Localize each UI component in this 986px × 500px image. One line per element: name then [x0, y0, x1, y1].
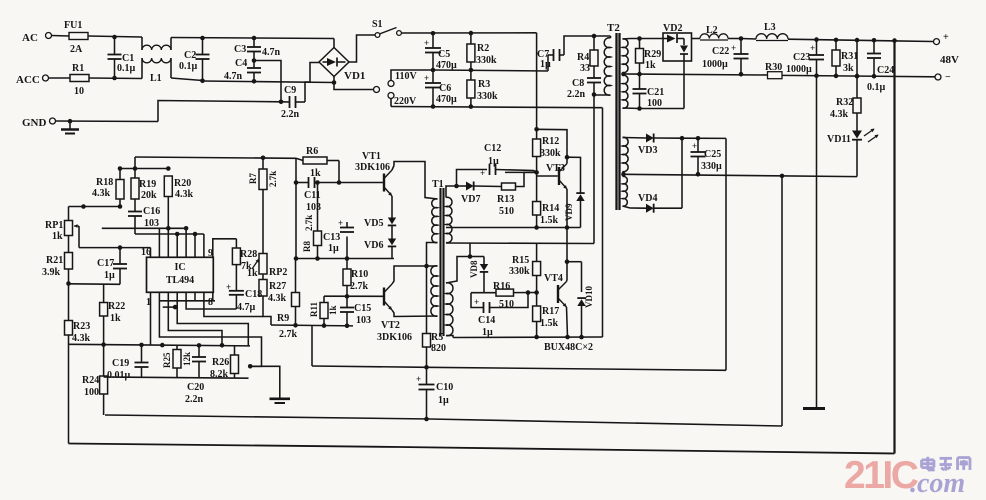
pin wire 9 to R28 — [213, 239, 237, 257]
svg-text:C17: C17 — [97, 258, 114, 269]
transformer T2 primary winding — [594, 36, 611, 95]
resistor R17 1.5k — [533, 293, 560, 340]
transistor VT4 — [544, 273, 567, 307]
svg-text:R19: R19 — [139, 179, 156, 190]
svg-text:R21: R21 — [46, 255, 63, 266]
wire outer bottom feedback line — [69, 444, 895, 454]
wire VT1 base line — [339, 182, 383, 184]
capacitor C19 0.01u — [107, 345, 149, 381]
wire T1 primary upper bottom to node — [424, 243, 437, 269]
wire bridge bottom to selector — [334, 77, 374, 90]
transistor VT2 — [377, 284, 412, 343]
resistor R29 1k — [636, 39, 662, 75]
svg-text:R28: R28 — [240, 249, 257, 260]
svg-text:0.1µ: 0.1µ — [867, 82, 886, 93]
resistor R25 12k — [162, 345, 192, 377]
svg-text:510: 510 — [499, 206, 514, 217]
wire bus 284 — [69, 283, 121, 286]
capacitor C20 2.2n — [185, 345, 206, 405]
svg-text:R30: R30 — [765, 62, 782, 73]
wire drive return line 258 — [296, 256, 394, 261]
svg-text:1k: 1k — [247, 268, 258, 279]
svg-text:C14: C14 — [478, 315, 495, 326]
wire aux rail 157 — [135, 156, 296, 161]
svg-text:103: 103 — [144, 218, 159, 229]
svg-text:VD2: VD2 — [663, 23, 682, 34]
svg-text:21IC: 21IC — [844, 454, 919, 497]
svg-text:2.7k: 2.7k — [279, 329, 298, 340]
node C5 C6 midpoint — [431, 68, 436, 73]
transformer T1 primary lower — [431, 266, 438, 316]
svg-text:R31: R31 — [841, 51, 858, 62]
svg-text:1k: 1k — [52, 231, 63, 242]
svg-text:R7: R7 — [248, 173, 258, 184]
terminal AC line input — [22, 32, 69, 44]
diode VD7 — [457, 182, 502, 206]
svg-text:4.7µ: 4.7µ — [237, 302, 256, 313]
wire C2 to bridge left — [203, 63, 337, 85]
svg-text:+: + — [338, 218, 343, 228]
resistor R9 2.7k — [277, 259, 300, 341]
svg-text:C16: C16 — [143, 206, 160, 217]
resistor R12 330k — [533, 129, 561, 174]
svg-text:C13: C13 — [323, 232, 340, 243]
wire bus RT CT — [135, 233, 204, 235]
wire top rail corner down — [536, 33, 538, 130]
capacitor C11 103 — [296, 177, 339, 213]
wire negative bus corner — [602, 108, 604, 337]
capacitor C1 0.1u — [108, 37, 136, 78]
svg-text:C15: C15 — [354, 303, 371, 314]
node C1 top — [112, 35, 117, 40]
wire bus1 345 — [69, 343, 251, 348]
svg-text:R3: R3 — [478, 79, 490, 90]
potentiometer RP2 1k — [247, 254, 287, 280]
svg-text:4.7n: 4.7n — [262, 47, 281, 58]
resistor R32 4.3k — [830, 40, 861, 130]
pin wire 15 — [158, 228, 160, 257]
wire T1 secondary top terminal — [446, 186, 457, 198]
wire GND line to C9 — [158, 100, 290, 122]
svg-text:R14: R14 — [542, 203, 559, 214]
wire pin7 route — [204, 292, 263, 316]
wire R27 jog to R9 line — [263, 296, 271, 325]
resistor R13 510 — [497, 172, 537, 217]
pin 9 label — [208, 248, 213, 259]
wire VT3 collector feed — [537, 129, 581, 185]
diode VD5 — [364, 196, 396, 229]
svg-text:1000µ: 1000µ — [786, 64, 812, 75]
svg-text:C5: C5 — [438, 49, 450, 60]
svg-text:330k: 330k — [477, 91, 498, 102]
svg-text:+: + — [226, 282, 231, 292]
svg-text:VT3: VT3 — [546, 163, 565, 174]
wire C5-C6 midpoint rail to C7 — [433, 55, 548, 71]
wire bus feedback — [102, 227, 186, 229]
wire rail3 negative DC bus — [391, 107, 603, 108]
svg-text:VD4: VD4 — [638, 193, 657, 204]
wire half-bridge line1 — [446, 227, 581, 229]
capacitor C25 330u — [691, 138, 723, 176]
wire fuse to L1 — [88, 36, 142, 37]
node C22 top — [739, 36, 744, 41]
fuse FU1 2A — [64, 20, 88, 55]
svg-text:1000µ: 1000µ — [702, 59, 728, 70]
svg-text:R29: R29 — [644, 49, 661, 60]
svg-text:103: 103 — [306, 202, 321, 213]
svg-text:+: + — [731, 43, 736, 53]
svg-text:4.7n: 4.7n — [224, 71, 243, 82]
wire C3-C4 midpoint to ground line — [254, 61, 281, 102]
svg-text:R32: R32 — [836, 97, 853, 108]
svg-text:4.3k: 4.3k — [268, 293, 287, 304]
svg-text:+: + — [692, 141, 697, 151]
svg-text:3k: 3k — [843, 63, 854, 74]
svg-text:R20: R20 — [174, 178, 191, 189]
wire VT3 emitter down — [565, 189, 570, 230]
capacitor C4 4.7n — [224, 58, 261, 84]
svg-text:+: + — [480, 168, 485, 178]
svg-text:R5: R5 — [431, 332, 443, 343]
wire aux supply down feed — [725, 138, 727, 370]
svg-text:0.1µ: 0.1µ — [117, 63, 136, 74]
wire T1 secondary lower top to VD8 — [446, 243, 484, 283]
wire VT2 collector node to T1 lower — [427, 265, 438, 267]
svg-text:L2: L2 — [706, 25, 718, 36]
wire bus R18 RP1 — [69, 204, 123, 209]
svg-text:4.3k: 4.3k — [92, 188, 111, 199]
transistor VT1 — [355, 151, 394, 196]
resistor R3 330k — [467, 70, 498, 109]
transformer T1 primary upper — [432, 199, 438, 243]
watermark dianziwang characters — [922, 457, 970, 471]
capacitor C3 4.7n — [234, 38, 281, 61]
wire VT1 collector to T1 — [394, 162, 438, 200]
resistor R6 1k — [296, 146, 341, 185]
svg-text:0.01µ: 0.01µ — [107, 370, 131, 381]
resistor R26 8.2k — [210, 346, 239, 380]
rectifier module VD2 — [663, 23, 692, 61]
svg-text:C21: C21 — [647, 87, 664, 98]
svg-text:2.2n: 2.2n — [185, 394, 204, 405]
node VD3 VD4 cathode join — [680, 136, 685, 141]
svg-text:C12: C12 — [484, 143, 501, 154]
wire +48V top rail — [741, 37, 933, 43]
svg-text:R18: R18 — [96, 177, 113, 188]
svg-text:R23: R23 — [73, 321, 90, 332]
resistor R1 10 — [70, 63, 89, 97]
svg-text:L1: L1 — [150, 73, 162, 84]
wire T2 secondary top to VD2 — [623, 36, 664, 41]
wire VD2 bottom return — [683, 61, 685, 109]
svg-text:20k: 20k — [141, 190, 157, 201]
wire bus2 377 — [104, 377, 249, 378]
capacitor C18 4.7u — [226, 282, 262, 313]
svg-text:VD1: VD1 — [344, 70, 365, 82]
diode VD3 — [623, 134, 683, 157]
capacitor C12 1u — [457, 143, 537, 186]
transistor VT3 — [546, 157, 567, 189]
pin wire 16 — [150, 248, 152, 258]
svg-text:3DK106: 3DK106 — [355, 162, 390, 173]
wire aux rail corner down — [294, 158, 299, 261]
svg-text:R2: R2 — [477, 43, 489, 54]
svg-text:+: + — [424, 38, 429, 48]
capacitor C9 2.2n — [281, 85, 305, 120]
capacitor C8 2.2n — [567, 78, 601, 100]
resistor R7 2.7k — [248, 158, 278, 254]
svg-text:C9: C9 — [284, 85, 296, 96]
potentiometer RP1 1k — [45, 207, 79, 253]
wire bus wiper to pin16 — [79, 245, 151, 250]
watermark .com — [910, 468, 965, 499]
transformer T2 secondary winding upper — [623, 39, 629, 73]
svg-text:S1: S1 — [372, 19, 383, 30]
svg-text:R16: R16 — [493, 281, 510, 292]
wire L1 to C2 top rail — [171, 36, 254, 41]
resistor R2 330k — [467, 33, 497, 72]
svg-text:2.7k: 2.7k — [268, 171, 278, 187]
transformer T1 secondary lower — [446, 283, 453, 336]
svg-text:1µ: 1µ — [328, 243, 339, 254]
diode VD4 — [623, 138, 683, 213]
svg-text:C22: C22 — [712, 46, 729, 57]
svg-text:R13: R13 — [497, 194, 514, 205]
svg-text:R11: R11 — [309, 301, 319, 317]
ground symbol at GND input — [61, 119, 79, 134]
wire VT4 collector — [565, 228, 570, 281]
svg-text:470µ: 470µ — [436, 94, 457, 105]
svg-text:2.7k: 2.7k — [304, 215, 314, 231]
inductor L2 — [692, 25, 742, 40]
wire T2 secondary bottom rail — [623, 106, 685, 111]
svg-text:103: 103 — [356, 315, 371, 326]
svg-text:1.5k: 1.5k — [540, 215, 559, 226]
wire pin2 ground route — [159, 292, 261, 368]
capacitor C22 1000u — [702, 39, 749, 77]
wire R9 bottom line — [271, 323, 353, 328]
svg-text:+: + — [416, 374, 421, 384]
svg-text:R12: R12 — [542, 136, 559, 147]
resistor R11 1k — [309, 296, 338, 328]
wire pin4 route — [177, 292, 248, 346]
chassis ground bar — [803, 407, 825, 410]
wire pin3 route — [168, 292, 224, 347]
svg-text:.com: .com — [910, 468, 965, 499]
capacitor C24 0.1u — [867, 40, 894, 93]
resistor R15 330k — [509, 243, 541, 295]
svg-text:16: 16 — [141, 247, 151, 258]
svg-text:R8: R8 — [302, 241, 312, 252]
svg-text:+: + — [810, 43, 815, 53]
svg-text:C6: C6 — [439, 83, 451, 94]
wire pin8 stub — [212, 292, 214, 301]
capacitor C14 1u — [471, 293, 528, 338]
inductor L3 — [756, 22, 788, 41]
capacitor C15 103 — [340, 296, 371, 328]
svg-text:VT2: VT2 — [381, 320, 400, 331]
transformer T2 core — [607, 22, 620, 210]
wire aux feed line to drive circuit — [312, 326, 726, 371]
svg-text:R25: R25 — [162, 352, 172, 368]
svg-text:RP2: RP2 — [269, 267, 287, 278]
svg-text:2.7k: 2.7k — [350, 281, 369, 292]
svg-text:C8: C8 — [572, 78, 584, 89]
svg-text:48V: 48V — [940, 54, 959, 66]
wire C9 to AC rail — [305, 82, 310, 102]
pin wire 11 — [193, 232, 198, 258]
resistor R31 3k — [832, 40, 858, 76]
pin wire 13 — [175, 232, 180, 258]
resistor R10 2.7k — [343, 259, 369, 299]
wire VT2 emitter — [392, 310, 438, 317]
svg-text:R1: R1 — [72, 63, 84, 74]
resistor R20 4.3k — [164, 176, 193, 200]
capacitor C10 1u — [416, 367, 453, 421]
node T1 secondary top — [454, 184, 459, 189]
svg-text:R10: R10 — [351, 269, 368, 280]
svg-text:330µ: 330µ — [701, 161, 722, 172]
pin wire 10 — [203, 234, 205, 257]
svg-text:AC: AC — [22, 32, 38, 44]
terminal GND — [22, 117, 158, 129]
label BUX48C x2 — [544, 342, 593, 353]
capacitor C7 1u — [537, 49, 564, 70]
node T2 secondary center tap — [621, 72, 626, 77]
svg-text:VT4: VT4 — [544, 273, 563, 284]
pin 1 label — [146, 297, 151, 308]
svg-text:−: − — [945, 72, 951, 83]
wire feedback right vertical from +48V — [893, 41, 895, 454]
junction pin area — [163, 305, 178, 310]
terminal +48V output — [934, 32, 960, 66]
svg-text:1µ: 1µ — [482, 327, 493, 338]
svg-text:510: 510 — [499, 299, 514, 310]
resistor R28 7k — [232, 239, 257, 291]
svg-text:1k: 1k — [110, 313, 121, 324]
node C3 top — [252, 36, 257, 41]
wire C7 to T2 primary top — [564, 34, 596, 55]
resistor R18 4.3k — [92, 169, 124, 207]
svg-text:C10: C10 — [436, 382, 453, 393]
wire ground branch — [250, 366, 280, 397]
capacitor C5 470u — [424, 33, 457, 71]
svg-text:C23: C23 — [793, 52, 810, 63]
svg-text:R17: R17 — [542, 306, 559, 317]
wire aux plus rail — [682, 136, 726, 141]
svg-text:3.9k: 3.9k — [42, 267, 61, 278]
resistor R23 4.3k — [65, 284, 91, 444]
svg-text:BUX48C×2: BUX48C×2 — [544, 342, 593, 353]
terminal ACC line input — [16, 74, 70, 86]
pin 16 label — [141, 247, 151, 258]
svg-text:C4: C4 — [235, 58, 247, 69]
wire pin5 route — [186, 292, 236, 309]
svg-text:T2: T2 — [607, 22, 620, 34]
svg-text:1k: 1k — [328, 305, 338, 315]
svg-text:10: 10 — [74, 86, 84, 97]
svg-text:R15: R15 — [512, 255, 529, 266]
svg-text:VD6: VD6 — [364, 240, 383, 251]
terminal -48V output — [935, 72, 951, 83]
capacitor C23 1000u — [786, 40, 824, 76]
wire half-bridge line2 to T2 primary return — [446, 95, 594, 244]
svg-text:TL494: TL494 — [166, 275, 194, 286]
diode VD6 — [364, 226, 396, 259]
node startup feed — [534, 127, 539, 132]
transformer T2 secondary winding lower — [623, 75, 628, 108]
svg-text:1µ: 1µ — [540, 59, 551, 70]
svg-text:110V: 110V — [395, 71, 417, 82]
svg-text:T1: T1 — [432, 179, 444, 190]
resistor R30 in ground rail — [765, 62, 782, 79]
svg-text:VD7: VD7 — [461, 194, 480, 205]
svg-text:C24: C24 — [877, 65, 894, 76]
svg-text:GND: GND — [22, 117, 47, 129]
wire feedback mid line — [105, 176, 782, 426]
svg-text:220V: 220V — [394, 96, 417, 107]
svg-text:+: + — [474, 297, 479, 307]
svg-text:+: + — [943, 32, 949, 43]
capacitor C16 103 — [128, 206, 160, 234]
wire L1 to C2 bottom rail — [171, 78, 205, 83]
svg-text:C2: C2 — [184, 50, 196, 61]
node C3 C4 midpoint — [252, 58, 257, 63]
svg-text:330k: 330k — [540, 148, 561, 159]
svg-text:4.3k: 4.3k — [175, 189, 194, 200]
wire pin6 stub — [160, 292, 215, 301]
transformer T2 auxiliary winding lower — [623, 176, 628, 206]
svg-text:2A: 2A — [70, 44, 83, 55]
capacitor C13 1u — [323, 218, 354, 259]
svg-text:33: 33 — [580, 63, 590, 74]
svg-text:VD5: VD5 — [364, 218, 383, 229]
pin wire 14 via R20 — [166, 197, 171, 258]
svg-text:C20: C20 — [187, 382, 204, 393]
svg-text:VD11: VD11 — [827, 134, 851, 145]
svg-text:IC: IC — [174, 262, 185, 273]
wire bridge to switch S1 — [349, 35, 375, 62]
wire output ground line to chassis — [816, 76, 818, 407]
svg-text:R22: R22 — [108, 301, 125, 312]
svg-text:VD8: VD8 — [469, 260, 479, 278]
wire VT2 collector — [392, 266, 427, 284]
svg-text:2.2n: 2.2n — [281, 109, 300, 120]
svg-text:R4: R4 — [577, 52, 589, 63]
svg-text:C25: C25 — [704, 149, 721, 160]
inductor L1 common-mode choke — [142, 37, 171, 84]
svg-text:R26: R26 — [212, 357, 229, 368]
transformer T1 core — [432, 179, 444, 336]
transformer T1 secondary upper — [446, 197, 452, 242]
pin 8 label — [208, 297, 213, 308]
wire top rail to bridge — [254, 38, 334, 48]
resistor R24 100 — [82, 345, 108, 415]
wire output ground rail right — [782, 73, 935, 78]
voltage selector 110V contact — [388, 70, 433, 87]
wire R18 R19 R20 top rail — [118, 157, 171, 171]
svg-text:ACC: ACC — [16, 74, 40, 86]
svg-text:R9: R9 — [277, 313, 289, 324]
diode VD8 — [469, 257, 488, 293]
resistor R21 3.9k — [42, 253, 73, 286]
switch S1 — [372, 19, 401, 37]
voltage selector common contact — [374, 87, 380, 93]
diode VD9 — [564, 185, 585, 228]
svg-text:RP1: RP1 — [45, 220, 63, 231]
svg-text:VD9: VD9 — [564, 203, 574, 221]
LED VD11 — [827, 129, 879, 177]
